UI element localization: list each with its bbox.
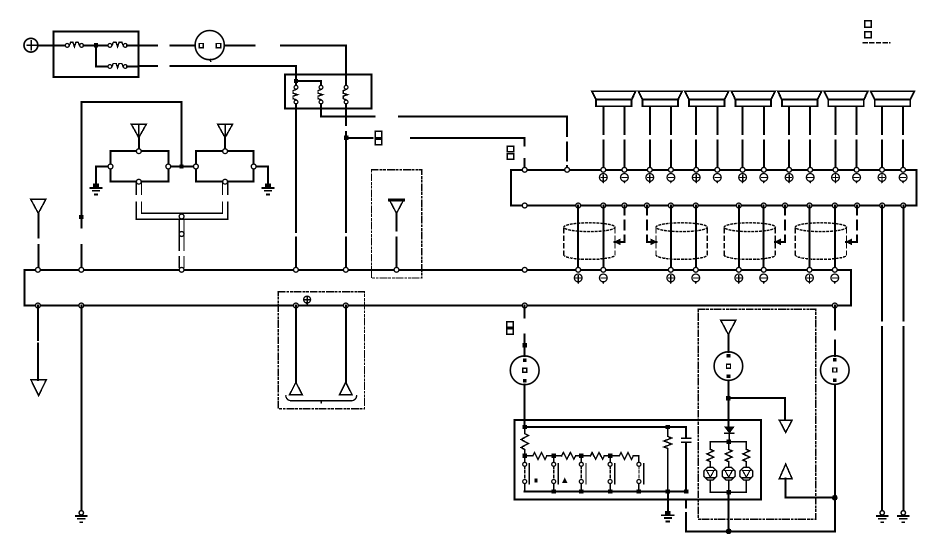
wire ECM ground 2 — [902, 206, 904, 511]
shielded pair center drop — [179, 219, 184, 267]
wire motor M3 down — [834, 384, 836, 497]
wire K2 ground lead — [254, 167, 268, 184]
coil L3 primary wires — [739, 206, 764, 268]
coil L1 trigger wire — [615, 206, 625, 245]
injector INJ3 — [685, 91, 729, 170]
wire LED module out — [728, 492, 730, 531]
resistor R4 — [584, 453, 608, 460]
coil L1 primary wires — [578, 206, 603, 268]
sensor connector box (dash-dot) — [278, 292, 364, 409]
connector arrow to relay 1 — [131, 124, 146, 149]
node fuse box 2 feed — [294, 79, 298, 83]
ground G2 — [262, 184, 273, 195]
wire F6 down — [345, 104, 347, 135]
switch S4 — [608, 458, 615, 492]
wire bus to motor M1 — [524, 306, 526, 344]
node LED return — [727, 490, 731, 494]
wire bottom link — [686, 530, 835, 532]
main junction box — [25, 270, 851, 306]
LED D3 — [722, 462, 735, 492]
node ladder 4 — [608, 453, 612, 457]
fuse F2 — [108, 42, 127, 47]
resistor R3 — [556, 453, 579, 460]
connector squares C3 — [507, 322, 514, 334]
wire relay link — [168, 166, 196, 168]
wire ignition switch output — [224, 45, 346, 74]
pin K2 bottom — [223, 179, 228, 184]
wire bus to motor M3 — [834, 306, 836, 356]
coil L4 trigger wire — [846, 206, 857, 245]
resistor R7 — [707, 449, 714, 461]
motor M2 — [714, 352, 743, 381]
switch S3 — [579, 458, 586, 492]
shielded pair horizontal join — [136, 213, 228, 219]
connector arrow bottom left — [31, 380, 46, 396]
wire fuse box feed — [54, 44, 66, 46]
injector INJ7 — [871, 91, 915, 170]
legend connector squares — [863, 21, 890, 43]
ground G5 — [877, 511, 888, 523]
shielded pair left drop — [136, 183, 141, 220]
battery B1 positive terminal — [24, 38, 38, 52]
ignition coil L4 — [795, 223, 846, 260]
ignition coil L2 — [656, 223, 707, 260]
node bottom link — [726, 528, 732, 534]
wire ECM ground 1 — [881, 206, 883, 511]
main junction box top pins — [36, 267, 838, 272]
ground G1 — [90, 184, 101, 195]
injector INJ6 — [824, 91, 868, 170]
wire connector to ECM — [411, 138, 525, 170]
node top rail right — [666, 425, 670, 429]
shielded pair right drop — [223, 183, 228, 220]
diode D1 — [725, 427, 734, 440]
ground G4 — [662, 511, 673, 522]
connector terminal A — [290, 382, 303, 394]
coil L3 trigger wire — [775, 206, 785, 245]
node LED rail — [727, 440, 731, 444]
connector squares C2 — [507, 146, 514, 159]
injector INJ5 — [778, 91, 822, 170]
wire M2 to diode — [727, 400, 729, 426]
ground G3 body — [76, 511, 87, 523]
coil L4 primary wires — [810, 206, 835, 268]
wire F5 to ECM — [321, 104, 567, 170]
wire node to motor M1 — [524, 347, 526, 356]
connector arrow out — [779, 420, 792, 432]
LED return rail — [710, 491, 746, 493]
capacitor CD1 — [682, 438, 691, 491]
ignition coil L3 — [724, 223, 775, 260]
wire bottom link right riser — [834, 498, 836, 532]
wire F3 to box edge — [127, 66, 138, 68]
component box — [514, 420, 760, 499]
wire F1 to node — [84, 44, 95, 46]
pin K1 left — [108, 164, 113, 169]
terminal polarity symbols ECM — [599, 174, 907, 183]
resistor R1 — [521, 427, 529, 454]
wire relay feed riser — [81, 102, 181, 268]
LED D2 — [704, 462, 717, 492]
resistor R5 — [612, 453, 639, 463]
wire return to node — [786, 497, 835, 499]
node relay feed junction — [179, 164, 183, 168]
pin center drop — [179, 232, 184, 237]
wire node to F5 — [296, 81, 321, 85]
resistor R8 — [725, 449, 732, 461]
injector INJ1 — [592, 91, 636, 170]
fuse F1 — [65, 42, 83, 47]
fuse F3 — [108, 64, 127, 69]
node splice on riser — [79, 215, 83, 219]
node ladder 2 — [552, 453, 556, 457]
wire bus to connector arrow — [37, 306, 39, 380]
connector squares C1 — [375, 131, 382, 145]
wire to terminal A — [295, 306, 297, 383]
terminal polarity symbols bus — [574, 274, 838, 283]
cluster box (dash-dot) — [698, 309, 816, 519]
ECM box — [511, 170, 917, 206]
terminal symbol plus — [304, 296, 311, 305]
coil L2 primary wires — [671, 206, 696, 268]
coil L2 trigger wire — [647, 206, 657, 245]
wire F2 to box edge — [127, 44, 138, 46]
connector arrow return up — [779, 464, 792, 498]
pin K1 right — [166, 164, 171, 169]
pin K1 bottom — [136, 179, 141, 184]
ignition switch SW1 — [195, 30, 224, 61]
pin K1 top — [136, 149, 141, 154]
node resistor top left — [523, 425, 527, 429]
node ladder 3 — [579, 453, 583, 457]
node M2 branch — [726, 396, 730, 400]
fuse box 2 — [285, 75, 372, 109]
injector INJ2 — [639, 91, 683, 170]
wire branch down — [96, 47, 108, 66]
wire node to F2 — [98, 44, 108, 46]
wire motor M2 down — [727, 380, 729, 398]
bottom rail nodes — [552, 489, 689, 493]
wire battery to fuse box — [38, 44, 54, 46]
wire to ignition switch — [139, 44, 196, 46]
wire lower feed — [139, 66, 296, 79]
resistor R9 — [743, 449, 750, 461]
wire to terminal B — [345, 306, 347, 383]
wire node to connector — [348, 137, 372, 139]
wire motor M1 to resistor box — [524, 385, 526, 427]
node return junction — [832, 495, 838, 501]
pin K2 top — [223, 149, 228, 154]
connector arrow to relay 2 — [218, 124, 233, 149]
switch S1 — [523, 458, 530, 492]
switch S5 — [637, 458, 644, 492]
injector INJ4 — [731, 91, 775, 170]
ECM top pins — [522, 167, 905, 172]
resistor R6 — [664, 427, 672, 492]
ECM bottom pins — [522, 203, 905, 208]
fuse F6 — [343, 85, 348, 104]
LED D4 — [740, 462, 753, 492]
LED supply rail — [710, 442, 746, 450]
connector arrow in box — [389, 199, 404, 267]
connector terminal B — [340, 382, 353, 394]
terminal pair bracket — [286, 396, 357, 403]
node ladder 1 — [523, 453, 527, 457]
wire F6 branch to main bus — [345, 140, 347, 268]
wire bottom rail — [525, 491, 686, 493]
ground G6 — [898, 511, 909, 523]
fuse box (main) — [54, 31, 139, 77]
wire capacitor leg below box — [685, 499, 687, 531]
fuse F4 — [293, 85, 298, 104]
node above motor M1 — [523, 343, 527, 347]
wire F4 to main bus — [295, 104, 297, 268]
wire branch to connector arrow — [728, 398, 785, 420]
relay box K1 — [111, 151, 169, 182]
node F6 branch — [344, 135, 348, 139]
connector arrow to motor M2 — [721, 320, 736, 352]
main junction box bottom pins — [36, 303, 838, 308]
motor M3 — [821, 356, 850, 385]
node battery feed junction — [94, 43, 98, 47]
switch mark triangle — [563, 479, 567, 483]
wire to ground G4 — [667, 492, 669, 511]
motor M1 — [510, 356, 539, 385]
inline connector box (dash-dot) — [372, 170, 422, 278]
ignition coil L1 — [564, 223, 615, 260]
connector arrow left — [31, 199, 46, 267]
wire F6 top — [345, 75, 347, 86]
resistor R2 — [527, 453, 552, 460]
switch mark F — [535, 479, 538, 483]
pin pair junction — [179, 214, 184, 219]
pin K2 left — [194, 164, 199, 169]
fuse F5 — [318, 85, 323, 104]
wire top rail — [525, 427, 686, 438]
wire bus to ground left — [80, 306, 82, 510]
wire K1 ground lead — [96, 167, 111, 184]
switch S2 — [552, 458, 559, 492]
pin K2 right — [251, 164, 256, 169]
relay box K2 — [196, 151, 254, 182]
